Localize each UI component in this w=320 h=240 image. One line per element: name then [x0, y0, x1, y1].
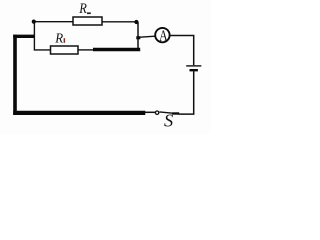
wire to ammeter [138, 36, 155, 37]
wire top branch right [102, 21, 136, 23]
node dot right [134, 20, 138, 24]
wire battery to bottom-right corner [179, 71, 194, 114]
switch fixed contact [172, 112, 179, 114]
svg-text:S: S [164, 110, 173, 130]
junction nub [136, 36, 140, 39]
switch pivot circle [155, 111, 158, 114]
wire bottom branch thin [78, 49, 94, 51]
wire ammeter to top-right corner [170, 36, 194, 66]
svg-text:A: A [159, 28, 168, 45]
wire right node vertical [137, 22, 139, 50]
wire stub to switch [145, 111, 156, 113]
resistor R2 (top) [73, 17, 102, 25]
node dot left [32, 20, 36, 24]
wire bottom branch thick [93, 48, 140, 51]
battery long plate [186, 65, 201, 67]
wire left node vertical [34, 22, 50, 50]
battery short plate [190, 69, 198, 71]
svg-text:R: R [54, 31, 63, 46]
wire thick battery loop (left + bottom) [13, 35, 35, 38]
switch blade [159, 112, 172, 113]
svg-text:R: R [78, 1, 86, 17]
resistor R1 (bottom) [51, 46, 79, 54]
wire top branch left [34, 21, 73, 23]
ammeter A [155, 28, 169, 42]
